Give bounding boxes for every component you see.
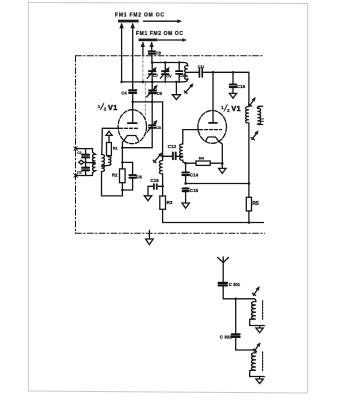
capacitor C301 <box>219 283 227 286</box>
input transformer secondary <box>102 155 105 172</box>
capacitor C14 <box>182 163 189 183</box>
capacitor C15 (osc grid leak) <box>148 184 163 196</box>
junction dots on bus <box>120 81 180 84</box>
triode V1a envelope <box>118 110 146 144</box>
wire corner down to IF transformer <box>248 72 250 106</box>
svg-text:FM1 FM2 OM OC: FM1 FM2 OM OC <box>115 12 164 18</box>
band2 secondary dashes <box>262 352 264 370</box>
capacitor C1 <box>82 149 89 163</box>
svg-text:C4: C4 <box>121 90 127 95</box>
wire from S2 contact b <box>149 41 153 62</box>
trimmer arrow band1 coil <box>253 286 260 295</box>
wire C301 to junction <box>223 286 254 299</box>
capacitor C6 (parallel with R2) <box>122 162 135 190</box>
V1a plate <box>128 110 137 123</box>
band2 tuned coil <box>236 350 265 377</box>
feeder arrow diamond <box>79 160 84 164</box>
trimmer arrow of L1 <box>184 83 193 93</box>
ground of band1 coil <box>256 326 263 333</box>
wire bus at y82 <box>122 81 184 83</box>
V1b cathode <box>205 137 218 141</box>
svg-text:C8: C8 <box>155 51 161 56</box>
svg-text:C11: C11 <box>198 65 205 69</box>
wire C4 to tube V1a plate <box>132 94 134 111</box>
label 1/2 V1 (left triode) <box>98 103 118 113</box>
svg-text:C15: C15 <box>150 178 159 183</box>
IF transformer T1 secondary <box>257 106 262 124</box>
V1a grid <box>102 127 137 129</box>
resistor R1 <box>107 143 112 156</box>
T1 core marks <box>260 119 263 121</box>
svg-text:C 302: C 302 <box>220 334 232 339</box>
svg-text:2: 2 <box>104 106 107 112</box>
svg-text:C 301: C 301 <box>229 282 241 287</box>
grid wire corner to input coil <box>101 128 104 154</box>
svg-text:C7: C7 <box>153 73 159 78</box>
capacitor C302 <box>232 299 240 350</box>
LC box bottom right corner <box>184 78 188 82</box>
ground of LC box <box>172 82 180 100</box>
V1a cathode lead <box>122 140 124 162</box>
plate feed wire to C11 <box>188 71 199 73</box>
capacitor C2 <box>82 162 89 175</box>
trimmer arrow band2 coil <box>253 342 260 351</box>
svg-text:C12: C12 <box>168 144 177 149</box>
V1b cathode lead <box>219 141 223 168</box>
V1b plate <box>209 72 217 123</box>
coil L1 (right side of LC box) <box>185 66 188 80</box>
svg-text:C14: C14 <box>190 173 199 178</box>
connection arrow (to AVC) above R1 <box>106 131 112 142</box>
trimmer arrow at mixer grid junction <box>153 152 162 162</box>
variable capacitor CV <box>160 63 169 82</box>
svg-text:C5: C5 <box>156 125 162 130</box>
svg-text:CV: CV <box>166 74 172 79</box>
wire from S2 contact a <box>141 41 145 82</box>
svg-text:C15: C15 <box>190 188 199 193</box>
wire from S1 contact a <box>119 23 124 82</box>
svg-text:C9: C9 <box>157 91 163 96</box>
resistor R2 <box>120 162 126 196</box>
input transformer primary <box>92 149 95 176</box>
choke under R1 <box>102 156 111 167</box>
svg-text:C2: C2 <box>77 171 82 175</box>
secondary bottom lead <box>102 172 123 196</box>
label 1/2 V1 (right triode) <box>221 104 241 114</box>
T1 trimmer arrow top <box>249 97 256 106</box>
band1 secondary dashes <box>262 301 264 319</box>
ground of C15b <box>182 203 189 208</box>
wire C11 to IF transformer <box>203 71 249 73</box>
svg-text:R3: R3 <box>167 200 173 205</box>
svg-text:R5: R5 <box>252 201 259 207</box>
antenna input bottom wire <box>76 175 93 177</box>
svg-text:R1: R1 <box>113 147 118 151</box>
svg-text:1: 1 <box>98 104 101 110</box>
capacitor C10 <box>176 63 182 82</box>
svg-text:R4: R4 <box>199 156 205 161</box>
trimmer capacitor C9 <box>147 82 158 102</box>
antenna <box>218 257 229 283</box>
ground of band2 coil <box>256 377 263 384</box>
oscillator junction riser <box>133 102 163 156</box>
svg-text:V1: V1 <box>108 103 118 112</box>
padder coil L3 below junction <box>160 156 163 196</box>
wire T1 down to R5 junction <box>248 123 250 184</box>
ground of C16 <box>229 93 236 98</box>
switch bar S1 <box>118 20 139 23</box>
svg-text:1: 1 <box>221 105 224 111</box>
antenna input top wire <box>76 148 93 150</box>
switch motion arrow S1 <box>144 19 183 23</box>
wire diamond to transformer tap <box>84 161 96 163</box>
capacitor C12 (osc coupling) <box>163 152 183 159</box>
capacitor C4 <box>129 90 136 93</box>
IF transformer T1 primary <box>246 107 249 124</box>
triode V1b envelope <box>198 111 227 144</box>
oscillator grid coil L2 <box>180 144 186 163</box>
band1 tuned coil <box>250 299 265 326</box>
resistor R3 <box>160 196 166 209</box>
variable capacitor C5 <box>147 102 157 148</box>
chassis ground below border <box>146 230 154 244</box>
wire from S1 contact b <box>130 23 135 90</box>
svg-text:FM1 FM2 OM OC: FM1 FM2 OM OC <box>136 31 183 37</box>
ground of C15 <box>144 196 151 201</box>
switch motion arrow S2 <box>159 38 188 42</box>
switch bar S2 <box>139 39 158 42</box>
wire R3 to bottom rail <box>163 209 264 222</box>
capacitor C16 <box>230 72 236 93</box>
border crossing mark top <box>74 147 78 151</box>
tuning gang dashed link <box>144 84 146 119</box>
ground of V1b cathode <box>219 168 226 173</box>
resistor R4 <box>186 161 223 165</box>
variable capacitor C7 <box>147 63 156 82</box>
resistor R5 <box>246 184 251 223</box>
capacitor C11 <box>199 68 202 77</box>
svg-text:2: 2 <box>227 108 230 114</box>
svg-text:C1: C1 <box>77 151 82 155</box>
cathode to C5 link wire <box>122 147 152 149</box>
svg-text:R2: R2 <box>112 173 118 178</box>
svg-text:V1: V1 <box>231 104 241 113</box>
border crossing mark bottom <box>74 174 78 178</box>
capacitor C8 <box>149 51 155 53</box>
capacitor C15b <box>183 189 189 204</box>
T1 trimmer arrow bottom <box>251 130 258 139</box>
V1a cathode <box>124 136 138 141</box>
dash-dot enclosure border <box>76 56 265 234</box>
svg-text:C16: C16 <box>237 84 246 89</box>
IF output wire <box>186 183 249 185</box>
V1b grid <box>183 130 222 144</box>
LC box top wire <box>152 63 188 67</box>
svg-text:C6: C6 <box>136 175 142 180</box>
